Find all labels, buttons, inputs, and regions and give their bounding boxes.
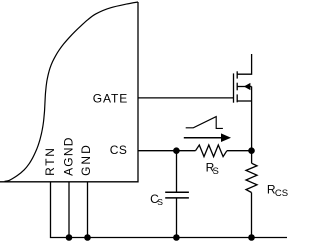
svg-text:GND: GND [79, 143, 93, 176]
svg-text:S: S [213, 166, 219, 177]
svg-text:AGND: AGND [62, 136, 76, 175]
svg-text:CS: CS [275, 188, 288, 199]
svg-text:S: S [157, 197, 163, 207]
svg-text:RTN: RTN [43, 146, 57, 176]
svg-text:GATE: GATE [93, 91, 128, 105]
svg-text:CS: CS [110, 143, 128, 157]
